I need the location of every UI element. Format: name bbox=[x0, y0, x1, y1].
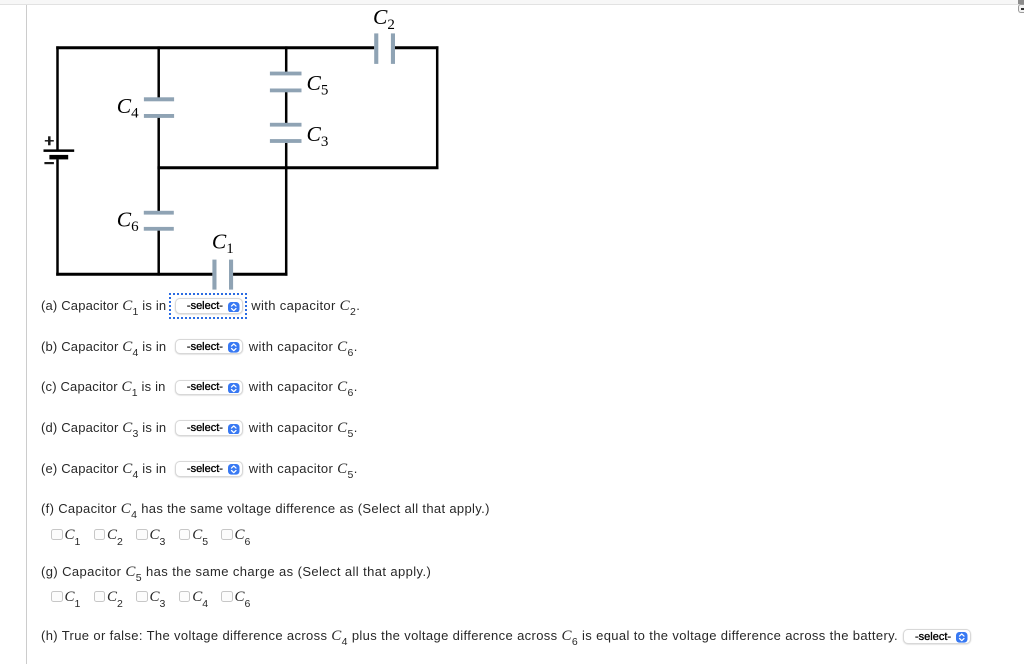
top gray band bbox=[0, 0, 1024, 5]
capacitor C5 plates bbox=[270, 72, 302, 76]
question (h) text bbox=[41, 628, 898, 645]
wire: left vertical upper (top wire to battery + plate) bbox=[56, 46, 59, 149]
wire: branch 2 lower (C3 bottom plate through junction to bottom wire) bbox=[285, 143, 288, 276]
select (b) bbox=[175, 339, 243, 355]
wire: top right segment (C2 right plate to top-right corner) bbox=[394, 46, 438, 49]
question (a) focus ring + select bbox=[169, 293, 247, 319]
svg-text:C5: C5 bbox=[307, 71, 329, 99]
wire: branch 1 middle (C4 bottom plate through middle-wire junction to C6 top plate) bbox=[157, 117, 160, 212]
question (b) lead text bbox=[41, 339, 166, 356]
capacitor C6 plates bbox=[144, 211, 174, 215]
wire: right vertical (corner down to middle wire) bbox=[436, 46, 439, 169]
battery: short thick - plate bbox=[49, 155, 68, 160]
capacitor C1 plates (vertical) bbox=[212, 260, 216, 290]
wire: top left segment (battery top to C2 left plate) bbox=[56, 46, 374, 49]
wire: left vertical lower (battery - plate to bottom wire) bbox=[56, 159, 59, 275]
select (a) bbox=[175, 298, 243, 314]
question (d) trail text bbox=[249, 420, 358, 437]
svg-text:C1: C1 bbox=[212, 229, 234, 257]
question (c) lead text bbox=[41, 379, 166, 396]
question (a) lead text bbox=[41, 298, 166, 315]
scrollbar fragment top-right: gray block bbox=[1018, 0, 1024, 4]
svg-text:C6: C6 bbox=[117, 208, 139, 236]
select (h) bbox=[903, 629, 971, 645]
question (g) text bbox=[41, 564, 431, 581]
question (c) trail text bbox=[249, 379, 358, 396]
question (f) text bbox=[41, 501, 490, 518]
svg-text:C2: C2 bbox=[373, 5, 395, 33]
left vertical divider line bbox=[26, 5, 27, 664]
select (e) bbox=[175, 461, 243, 477]
wire: branch 1 top (top wire to C4 top plate) bbox=[157, 46, 160, 98]
wire: bottom right segment (C1 right plate to branch 2) bbox=[232, 273, 287, 276]
capacitor C3 plates bbox=[270, 123, 302, 127]
scrollbar fragment: light button bbox=[1018, 4, 1024, 13]
checkboxes (f) bbox=[51, 529, 63, 541]
wire: middle horizontal wire bbox=[157, 166, 438, 169]
scrollbar fragment: dark dash bbox=[1021, 8, 1024, 10]
select (d) bbox=[175, 420, 243, 436]
question (e) lead text bbox=[41, 461, 166, 478]
question (d) lead text bbox=[41, 420, 166, 437]
wire: branch 2 between C5 and C3 bbox=[285, 92, 288, 124]
battery - sign bbox=[44, 162, 54, 164]
wire: bottom left segment (to C1 left plate) bbox=[56, 273, 212, 276]
capacitor C4 plates bbox=[144, 97, 174, 101]
svg-text:C4: C4 bbox=[117, 94, 139, 122]
question (a) trail text bbox=[251, 298, 360, 315]
capacitor C2 plates (vertical) bbox=[374, 33, 378, 64]
battery + sign bbox=[45, 136, 54, 145]
svg-text:C3: C3 bbox=[307, 122, 329, 150]
battery: long thin + plate bbox=[44, 149, 75, 152]
wire: branch 2 top (top wire to C5 top plate) bbox=[285, 46, 288, 72]
checkboxes (g) bbox=[51, 591, 63, 603]
wire: branch 1 bottom (C6 bottom plate to bottom wire) bbox=[157, 230, 160, 276]
select (c) bbox=[175, 380, 243, 396]
question (e) trail text bbox=[249, 461, 358, 478]
question (b) trail text bbox=[249, 339, 358, 356]
